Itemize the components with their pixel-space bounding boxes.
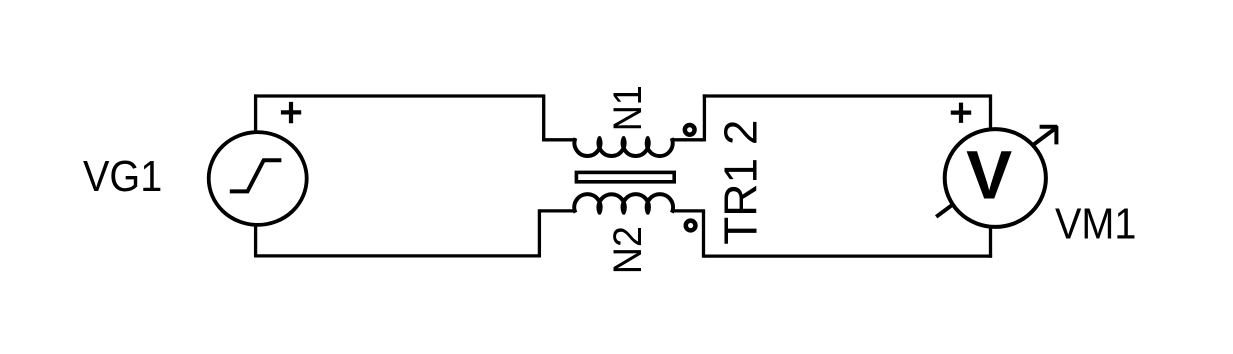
wire top-right horizontal xyxy=(703,94,991,97)
voltmeter VM1 circle xyxy=(945,129,1046,227)
wire VM1 top vertical xyxy=(989,94,992,131)
VG1 ramp symbol xyxy=(230,160,282,191)
svg-text:VM1: VM1 xyxy=(1055,198,1136,247)
wire VG1 top vertical xyxy=(254,94,257,133)
wire N2 right xyxy=(672,209,705,212)
wire step up from N1 xyxy=(703,94,706,141)
wire N2 left xyxy=(539,209,575,212)
wire bottom-right horizontal xyxy=(704,254,993,257)
plus sign VG1 xyxy=(281,102,301,123)
wire step down to N1 xyxy=(542,94,545,139)
voltmeter arrow line xyxy=(936,129,1054,217)
polarity dot N1 xyxy=(685,125,695,135)
svg-text:N2: N2 xyxy=(606,226,650,274)
svg-text:V: V xyxy=(966,136,1012,213)
svg-text:VG1: VG1 xyxy=(83,151,162,200)
voltage generator VG1 circle xyxy=(209,132,307,225)
voltmeter arrowhead xyxy=(1040,126,1058,144)
wire VG1 bottom vertical xyxy=(254,224,257,258)
wire bottom-left horizontal xyxy=(256,254,541,257)
wire VM1 bottom vertical xyxy=(989,225,992,258)
wire into N1 left xyxy=(542,138,576,141)
svg-text:N1: N1 xyxy=(606,85,650,131)
wire N1 right xyxy=(672,138,705,141)
wire step down from N2 xyxy=(538,209,541,256)
svg-text:TR1 2: TR1 2 xyxy=(715,120,767,245)
inductor winding N1 xyxy=(574,138,672,156)
plus sign VM1 xyxy=(951,103,971,123)
inductor winding N2 xyxy=(574,194,673,213)
transformer core TR1 xyxy=(576,172,674,181)
wire top-left horizontal xyxy=(254,94,544,97)
wire step up to N2 xyxy=(702,211,705,258)
polarity dot N2 xyxy=(686,221,696,231)
